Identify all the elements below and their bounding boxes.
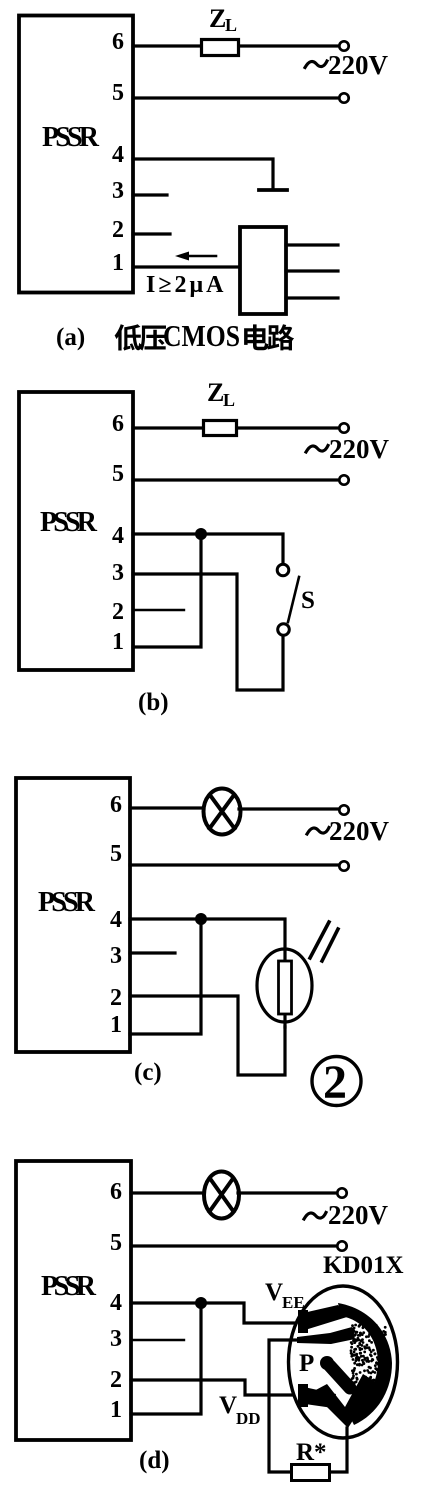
wire resistor to cathode (d): [330, 1428, 347, 1472]
wire pin5 to AC terminal (a): [133, 96, 339, 99]
wire stub pin3 (c): [130, 951, 175, 954]
CMOS block U2 (a): [240, 227, 286, 314]
wire stub pin3 (d): [131, 1339, 184, 1341]
svg-text:L: L: [225, 15, 237, 35]
wire CMOS output 1 (a): [286, 243, 338, 246]
label ~220V (d): [304, 1200, 389, 1230]
svg-text:(d): (d): [139, 1447, 170, 1474]
svg-text:CMOS: CMOS: [163, 318, 240, 353]
PSSR U-d (solid state relay block): [16, 1161, 131, 1440]
label ~220V (a): [305, 50, 389, 80]
svg-text:220V: 220V: [329, 434, 390, 464]
terminal node AC-top (a): [339, 41, 348, 50]
svg-text:4: 4: [110, 907, 122, 933]
wire pin1 to CMOS block (a): [133, 265, 240, 268]
svg-text:3: 3: [110, 1326, 122, 1352]
svg-text:I≥2μA: I≥2μA: [146, 272, 226, 298]
gate wire P loop (d): [269, 1340, 297, 1472]
svg-text:1: 1: [110, 1397, 122, 1423]
VEE electrode arrow: [298, 1310, 308, 1333]
svg-text:EE: EE: [282, 1293, 305, 1312]
wire junction down to pin1 (b): [133, 534, 201, 647]
wire lamp to AC terminal (d): [238, 1191, 337, 1194]
svg-text:6: 6: [112, 411, 124, 437]
junction node pin4/pin1 (b): [195, 528, 207, 540]
svg-text:PSSR: PSSR: [38, 887, 96, 918]
svg-text:Z: Z: [207, 378, 224, 407]
svg-text:3: 3: [112, 178, 124, 204]
svg-text:(c): (c): [134, 1059, 162, 1086]
svg-text:DD: DD: [236, 1409, 261, 1428]
wire CMOS output 2 (a): [286, 269, 338, 272]
svg-text:4: 4: [112, 523, 124, 549]
wire pin3 loop to switch bottom (b): [133, 574, 283, 690]
wire pin6 to load ZL (a): [133, 44, 200, 47]
svg-text:6: 6: [110, 792, 122, 818]
svg-text:V: V: [219, 1392, 237, 1419]
label VDD: [219, 1392, 261, 1428]
curved band: [338, 1303, 392, 1425]
terminal node AC-top (b): [339, 423, 348, 432]
svg-text:1: 1: [112, 250, 124, 276]
current direction arrow I (a): [175, 252, 216, 261]
photothyristor KD01X envelope (d): [289, 1286, 398, 1438]
stipple texture: [361, 1333, 364, 1336]
terminal node AC-top (c): [339, 805, 348, 814]
resistor ZL (b): [204, 421, 237, 436]
PSSR U-c (solid state relay block): [16, 778, 130, 1052]
svg-text:(b): (b): [138, 689, 169, 716]
cathode chevron: [312, 1374, 377, 1428]
wire lamp to AC terminal (c): [239, 807, 339, 810]
photothyristor internal symbol (d): [297, 1303, 392, 1428]
svg-text:PSSR: PSSR: [42, 122, 100, 153]
svg-text:Z: Z: [209, 4, 226, 33]
PSSR U-a (solid state relay block): [19, 16, 133, 293]
svg-text:220V: 220V: [328, 50, 389, 80]
photoresistor RG (c): [257, 949, 312, 1027]
switch S (b): [277, 564, 299, 635]
terminal node AC-top (d): [337, 1188, 346, 1197]
svg-text:5: 5: [110, 841, 122, 867]
svg-text:3: 3: [112, 560, 124, 586]
wire pin5 to AC terminal (d): [131, 1244, 337, 1247]
svg-text:V: V: [265, 1279, 283, 1306]
wire pin4 to photoresistor (c): [130, 919, 285, 950]
svg-text:2: 2: [112, 217, 124, 243]
svg-text:1: 1: [110, 1012, 122, 1038]
wire pin6 to ZL (b): [133, 426, 202, 429]
caption text 低压CMOS电路: [115, 318, 295, 353]
wire pin6 to lamp (d): [131, 1191, 203, 1194]
label VEE: [265, 1279, 305, 1312]
circled number 2: [312, 1056, 361, 1109]
svg-text:1: 1: [112, 629, 124, 655]
terminal node AC-bottom (c): [339, 861, 348, 870]
svg-text:PSSR: PSSR: [40, 507, 98, 538]
wire stub pin2 (b): [133, 609, 184, 611]
svg-text:R*: R*: [296, 1439, 327, 1466]
terminal node AC-bottom (d): [337, 1241, 346, 1250]
wire pin4 to ground (a): [133, 159, 273, 188]
svg-text:220V: 220V: [328, 1200, 389, 1230]
svg-text:3: 3: [110, 943, 122, 969]
lamp HL (c): [204, 789, 241, 835]
svg-text:L: L: [223, 390, 235, 410]
svg-text:2: 2: [112, 599, 124, 625]
lamp HL (d): [204, 1172, 239, 1219]
label ~220V (c): [307, 816, 390, 846]
terminal node AC-bottom (b): [339, 475, 348, 484]
svg-text:5: 5: [110, 1230, 122, 1256]
svg-text:(a): (a): [56, 324, 85, 351]
svg-text:4: 4: [112, 142, 124, 168]
svg-text:220V: 220V: [329, 816, 390, 846]
wire pin2 to VDD input (d): [131, 1380, 302, 1395]
junction node pin4/pin1 (c): [195, 913, 207, 925]
svg-text:KD01X: KD01X: [323, 1252, 404, 1279]
resistor ZL (a): [202, 40, 239, 56]
wire CMOS output 3 (a): [286, 296, 338, 299]
svg-text:2: 2: [110, 985, 122, 1011]
wire pin5 to AC terminal (b): [133, 478, 339, 481]
svg-text:5: 5: [112, 461, 124, 487]
PSSR U-b (solid state relay block): [19, 392, 133, 670]
svg-text:PSSR: PSSR: [41, 1271, 97, 1302]
svg-text:4: 4: [110, 1290, 122, 1316]
wire pin4 to VEE input (d): [131, 1303, 302, 1323]
wire pin5 to AC terminal (c): [130, 863, 339, 866]
label ~220V (b): [306, 434, 390, 464]
value label ZL (a): [209, 4, 237, 35]
terminal node AC-bottom (a): [339, 93, 348, 102]
value label ZL (b): [207, 378, 235, 410]
P region dot and bar: [320, 1356, 334, 1370]
svg-text:6: 6: [110, 1179, 122, 1205]
wire pin4 to switch (b): [133, 534, 283, 562]
svg-text:2: 2: [110, 1367, 122, 1393]
VDD electrode arrow: [298, 1384, 308, 1407]
wire ZL to AC terminal (b): [238, 426, 339, 429]
svg-text:2: 2: [323, 1056, 347, 1109]
light arrows (c): [310, 922, 338, 961]
wire pin6 to lamp (c): [130, 806, 203, 809]
wire pin2 loop to photoresistor bottom (c): [130, 996, 285, 1075]
wire ZL to AC terminal (a): [240, 44, 339, 47]
svg-text:P: P: [299, 1350, 314, 1377]
junction node pin4/pin1 (d): [195, 1297, 207, 1309]
ground: [259, 188, 287, 192]
resistor R* (d): [292, 1465, 330, 1481]
gate electrode bar: [297, 1327, 355, 1344]
svg-text:6: 6: [112, 29, 124, 55]
svg-text:S: S: [301, 587, 315, 614]
wire junction down to pin1 (c): [130, 919, 201, 1034]
wire stub pin2 (a): [133, 232, 170, 235]
wire stub pin3 (a): [133, 193, 167, 196]
wire junction down to pin1 (d): [131, 1303, 201, 1414]
svg-text:5: 5: [112, 80, 124, 106]
